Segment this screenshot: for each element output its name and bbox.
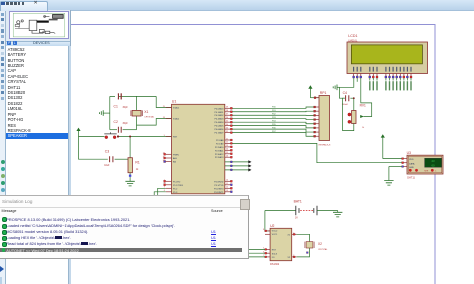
power terminal (U3) (382, 136, 384, 158)
wire to C3 (79, 137, 108, 160)
svg-text:P3.2/INT0: P3.2/INT0 (214, 188, 224, 190)
wire BAT to U2 VCC (265, 211, 270, 231)
pin P3.1/TXD (11) (225, 184, 231, 186)
svg-text:VCC2: VCC2 (272, 230, 278, 232)
pin P2.3/A11 (24) (225, 149, 231, 151)
node label P03 (396, 78, 398, 81)
svg-text:38: 38 (226, 110, 228, 112)
pin EA (31) (166, 161, 172, 163)
svg-text:30pF: 30pF (123, 107, 129, 109)
crystal X1 (136, 96, 138, 110)
pin LCD VEE (3) (360, 67, 361, 72)
wire LCD VEE to wiper (361, 78, 372, 117)
svg-text:RST: RST (173, 137, 178, 139)
svg-text:%RH: %RH (424, 170, 429, 172)
pin P0.0/AD0 (39) (225, 107, 231, 109)
wire RP1 common (310, 97, 319, 99)
list scrollbar (68, 46, 71, 284)
pin P0.3/AD3 (36) (225, 118, 231, 120)
wire P0.3 to RP1 (231, 118, 315, 121)
pin P3.2/INT0 (12) (225, 187, 231, 189)
wire U3 GND (389, 166, 402, 168)
wire P1.3 down (154, 192, 166, 196)
svg-text:9: 9 (164, 135, 165, 137)
svg-text:P3.3/INT1: P3.3/INT1 (214, 192, 224, 194)
svg-text:CRYSTAL: CRYSTAL (318, 248, 328, 251)
pin RST (9) (166, 136, 172, 138)
wire U2 X1 (292, 233, 297, 235)
node label P25 (369, 78, 371, 81)
svg-text:33: 33 (226, 127, 228, 129)
svg-text:C1: C1 (114, 104, 118, 108)
svg-text:30pF: 30pF (123, 123, 129, 125)
svg-text:R1: R1 (135, 161, 139, 165)
svg-text:8: 8 (263, 229, 264, 231)
pin LCD D5 (12) (403, 67, 404, 72)
pin LCD D7 (14) (410, 67, 411, 72)
crystal X2 (306, 242, 313, 248)
wire P0.7 to RP1 (231, 133, 315, 137)
pin P0.6/AD6 (33) (225, 128, 231, 130)
svg-text:18: 18 (163, 117, 165, 119)
svg-text:U3: U3 (407, 151, 411, 155)
svg-text:RV1: RV1 (360, 104, 366, 108)
op-amp U1 AT89C52 (172, 104, 225, 194)
node label P26 (372, 78, 374, 81)
svg-text:U1: U1 (172, 99, 177, 103)
svg-text:RST: RST (272, 250, 277, 252)
wire P0.0 to RP1 (231, 107, 315, 108)
svg-text:P1.0/T2: P1.0/T2 (173, 181, 181, 183)
svg-text:CRYSTAL: CRYSTAL (144, 116, 155, 119)
wire P2.6 stub (225, 165, 249, 167)
wire U2 X2 (292, 256, 297, 258)
wire P2.1 to U3 DATA (231, 143, 403, 162)
node label P27 (376, 78, 378, 81)
wire P1.2 down (158, 188, 166, 196)
wire R1 top (129, 137, 131, 158)
svg-text:P0.4/AD4: P0.4/AD4 (214, 121, 224, 124)
wire U3 VDD (383, 158, 402, 160)
svg-text:60: 60 (431, 163, 435, 167)
svg-text:PSEN: PSEN (173, 154, 179, 156)
pin P1.3 (4) (166, 191, 172, 193)
ground (crystal) (103, 112, 110, 114)
pin P2.2/A10 (23) (225, 146, 231, 148)
pin LCD VDD (2) (357, 67, 358, 72)
svg-text:P2.3/A11: P2.3/A11 (215, 149, 224, 152)
svg-text:I/O: I/O (272, 257, 275, 259)
svg-text:P0.1/AD1: P0.1/AD1 (214, 111, 224, 114)
wire gnd vertical (109, 96, 111, 129)
svg-text:RESPACK-8: RESPACK-8 (319, 143, 331, 146)
wire P0.2 to RP1 (231, 114, 315, 116)
svg-text:P0.0/AD0: P0.0/AD0 (214, 107, 224, 110)
wire P0.5 to RP1 (231, 126, 315, 128)
svg-text:3V: 3V (295, 218, 298, 220)
svg-text:26: 26 (226, 156, 228, 158)
capacitor C4 (346, 95, 349, 101)
sensor U3 DHT11 (402, 158, 407, 160)
pin LCD D4 (11) (400, 67, 401, 72)
node label P01 (389, 78, 391, 81)
svg-text:C4: C4 (343, 91, 347, 95)
svg-text:XTAL1: XTAL1 (173, 107, 180, 110)
svg-text:LCD1: LCD1 (348, 34, 357, 38)
svg-text:P3.0/RXD: P3.0/RXD (214, 181, 224, 183)
svg-text:BAT1: BAT1 (294, 200, 302, 204)
ground (U3) (384, 181, 393, 186)
svg-text:32: 32 (226, 131, 228, 133)
node label P07 (410, 78, 412, 81)
pin P2.5/A13 (26) (225, 156, 231, 158)
pin LCD D1 (8) (389, 67, 390, 72)
pin P0.1/AD1 (38) (225, 111, 231, 113)
wire RV1 bottom loop (343, 98, 354, 130)
svg-text:12: 12 (226, 187, 228, 189)
svg-text:P3.1/TXD: P3.1/TXD (214, 185, 224, 187)
svg-text:25: 25 (226, 152, 228, 154)
svg-text:GND: GND (409, 167, 414, 169)
wire XTAL2 net (137, 119, 172, 126)
pin P1.1/T2EX (2) (166, 184, 172, 186)
power terminal (RP1) (309, 88, 311, 98)
pin P0.7/AD7 (32) (225, 132, 231, 134)
svg-text:39: 39 (226, 107, 228, 109)
pin P0.4/AD4 (35) (225, 121, 231, 123)
capacitor C1 (118, 93, 121, 99)
svg-text:RP1: RP1 (320, 91, 327, 95)
ground (battery) (337, 211, 339, 213)
wire RST net (79, 136, 105, 138)
svg-text:P2.1/A9: P2.1/A9 (216, 142, 224, 145)
pin P3.0/RXD (10) (225, 180, 231, 182)
svg-text:34: 34 (226, 124, 228, 126)
pin P2.1/A9 (22) (225, 142, 231, 144)
svg-text:P2.0/A8: P2.0/A8 (216, 139, 224, 142)
pin P2.4/A12 (25) (225, 153, 231, 155)
wire P0.6 to RP1 (231, 129, 315, 132)
svg-text:P0.5/AD5: P0.5/AD5 (214, 125, 224, 128)
pin LCD D2 (9) (393, 67, 394, 72)
svg-text:DATA: DATA (409, 162, 415, 165)
wire P2.5 stub (225, 161, 249, 163)
svg-text:11: 11 (226, 183, 228, 185)
svg-text:U2: U2 (270, 224, 274, 228)
svg-text:10uF: 10uF (104, 165, 110, 167)
svg-text:23: 23 (226, 145, 228, 147)
pin LCD VDD stub (356, 78, 358, 82)
pin LCD D3 (10) (396, 67, 397, 72)
pin LCD E (6) (376, 67, 377, 72)
potentiometer RV1 (352, 111, 356, 124)
svg-text:P0.3/AD3: P0.3/AD3 (214, 118, 224, 121)
node label P02 (392, 78, 394, 81)
svg-text:19: 19 (163, 106, 165, 108)
svg-text:10: 10 (226, 180, 228, 182)
wire P0.1 to RP1 (231, 110, 315, 113)
wire P2.7 stub (225, 169, 249, 171)
wire VSS branch down to RV1 (353, 98, 355, 110)
svg-text:P2.4/A12: P2.4/A12 (215, 153, 224, 156)
capacitor C2 (110, 129, 117, 131)
wire P0.4 to RP1 (231, 122, 315, 124)
wire XTAL1 net (110, 95, 156, 97)
pin XTAL1 (19) (166, 107, 172, 109)
pin P2.0/A8 (21) (225, 139, 231, 141)
svg-text:DHT11: DHT11 (407, 177, 415, 180)
svg-text:22: 22 (226, 142, 228, 144)
resistor pack RP1 (314, 97, 319, 99)
wire LCD VSS to gnd (339, 78, 353, 87)
sheet border (71, 25, 436, 284)
button RESET (105, 136, 108, 139)
svg-text:37: 37 (226, 114, 228, 116)
pin LCD VSS (1) (353, 67, 354, 72)
pin ALE (30) (166, 157, 172, 159)
pin P1.2 (3) (166, 187, 172, 189)
svg-text:C3: C3 (105, 149, 109, 153)
wire R1 bottom (129, 173, 131, 182)
node label P05 (403, 78, 405, 81)
svg-text:P0.2/AD2: P0.2/AD2 (214, 114, 224, 117)
pin P0.5/AD5 (34) (225, 125, 231, 127)
pin LCD RW (5) (373, 67, 374, 72)
ground (LCD VSS) (333, 85, 337, 91)
node label P04 (399, 78, 401, 81)
svg-text:1k: 1k (362, 127, 364, 129)
power terminal (reset) (78, 130, 80, 137)
node label P06 (406, 78, 408, 81)
svg-text:ALE: ALE (173, 157, 178, 160)
svg-text:X2: X2 (318, 242, 322, 246)
pin P1.0/T2 (1) (166, 180, 172, 182)
pin LCD RS (4) (369, 67, 370, 72)
svg-text:P2.2/A10: P2.2/A10 (215, 146, 224, 149)
pin LCD D6 (13) (407, 67, 408, 72)
svg-text:P1.1/T2EX: P1.1/T2EX (173, 185, 184, 187)
svg-text:VCC1: VCC1 (272, 234, 278, 236)
svg-text:C2: C2 (114, 120, 118, 124)
pin XTAL2 (18) (166, 118, 172, 120)
wire to C4 (339, 87, 344, 98)
capacitor C3 (110, 156, 113, 162)
svg-text:21: 21 (226, 138, 228, 140)
svg-text:1k: 1k (136, 169, 139, 171)
pin LCD D0 (7) (385, 67, 386, 72)
svg-text:24: 24 (226, 149, 228, 151)
node label P00 (385, 78, 387, 81)
ground (reset) (125, 181, 134, 186)
svg-text:35: 35 (226, 120, 228, 122)
svg-text:X1: X1 (144, 110, 148, 114)
svg-text:DS1302: DS1302 (270, 263, 280, 266)
svg-text:P0.7/AD7: P0.7/AD7 (214, 132, 224, 135)
pin P3.3/INT1 (13) (225, 191, 231, 193)
svg-text:XTAL2: XTAL2 (173, 118, 180, 121)
pin P0.2/AD2 (37) (225, 114, 231, 116)
preview window (9, 11, 69, 39)
svg-text:VDD: VDD (409, 159, 414, 161)
P / L buttons + DEVICES header (6, 41, 70, 48)
wires to U2 from MCU (248, 248, 265, 250)
svg-text:36: 36 (226, 117, 228, 119)
svg-text:P2.5/A13: P2.5/A13 (215, 156, 224, 159)
device list (6, 46, 68, 284)
svg-text:13: 13 (226, 190, 228, 192)
resistor R1 (128, 158, 132, 173)
svg-text:P0.6/AD6: P0.6/AD6 (214, 128, 224, 131)
svg-text:SCLK: SCLK (272, 253, 278, 255)
pin PSEN (29) (166, 153, 172, 155)
